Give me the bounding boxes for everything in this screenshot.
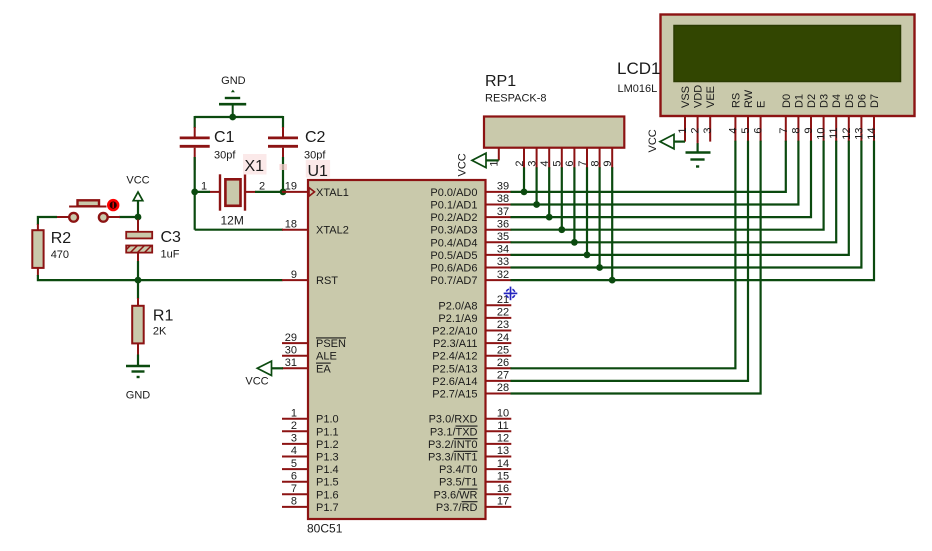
- svg-text:17: 17: [497, 496, 509, 508]
- U1 pin 6 (P1.5) stub + number: [282, 470, 339, 488]
- U1 pin 33 (P0.6/AD6) stub + number: [430, 256, 511, 274]
- U1 pin 5 (P1.4) stub + number: [282, 458, 339, 476]
- wire: net P0.2 from U1 to LCD D2: [511, 141, 812, 218]
- svg-text:10: 10: [816, 128, 828, 140]
- power VCC (EA pin): [245, 361, 271, 387]
- svg-text:13: 13: [853, 128, 865, 140]
- svg-text:12: 12: [841, 128, 853, 140]
- svg-text:D3: D3: [819, 94, 831, 108]
- U1 pin 10 (P3.0/RXD) stub + number: [429, 407, 512, 425]
- wire: RP1 pin 8 down to P0.6 net: [598, 167, 600, 267]
- svg-text:3: 3: [702, 128, 714, 134]
- svg-text:P1.2: P1.2: [316, 439, 339, 451]
- wire: net P2.5 from U1 to LCD RS: [511, 141, 736, 369]
- U1 pin 16 (P3.6/WR) stub + number: [433, 483, 511, 501]
- svg-text:2: 2: [514, 161, 526, 167]
- RP1 pin 5 stub + number: [552, 148, 564, 169]
- svg-text:12M: 12M: [221, 213, 244, 227]
- U1 pin 32 (P0.7/AD7) stub + number: [430, 269, 511, 287]
- capacitor C3 1uF (electrolytic): [126, 220, 181, 263]
- LCD1 pin 2 (VDD) stub + labels: [690, 85, 705, 142]
- LCD1 pin 14 (D7) stub + labels: [866, 94, 881, 142]
- U1 pin 11 (P3.1/TXD) stub + number: [430, 420, 511, 438]
- svg-text:ALE: ALE: [316, 351, 337, 363]
- svg-text:RP1: RP1: [485, 73, 516, 90]
- U1 pin 22 (P2.1/A9) stub + number: [438, 307, 511, 325]
- junction dot: RP1 pin 5 on P0.3 net: [558, 226, 565, 233]
- svg-text:P0.0/AD0: P0.0/AD0: [430, 187, 477, 199]
- U1 pin 9 (RST) stub + number: [282, 269, 338, 287]
- svg-text:37: 37: [497, 206, 509, 218]
- red actuate indicator on button: [108, 200, 118, 210]
- junction dot: RP1 pin 7 on P0.5 net: [584, 252, 591, 259]
- LCD1 pin 9 (D2) stub + labels: [803, 94, 818, 142]
- wire: C3 bottom to RST net: [137, 261, 139, 280]
- svg-text:27: 27: [497, 370, 509, 382]
- svg-text:5: 5: [552, 161, 564, 167]
- svg-text:X1: X1: [245, 158, 265, 175]
- svg-text:35: 35: [497, 231, 509, 243]
- LCD1 pin 8 (D1) stub + labels: [790, 94, 805, 142]
- svg-text:P3.7/RD: P3.7/RD: [436, 502, 478, 514]
- svg-text:VCC: VCC: [647, 129, 659, 152]
- U1 pin 19 (XTAL1) stub + number: [282, 181, 349, 199]
- LCD1 pin 12 (D5) stub + labels: [841, 94, 856, 142]
- svg-text:P3.4/T0: P3.4/T0: [439, 464, 478, 476]
- capacitor C1 30pf: [180, 127, 237, 170]
- junction dot: crystal pin1 tap: [191, 189, 198, 196]
- svg-text:P2.0/A8: P2.0/A8: [438, 300, 477, 312]
- svg-text:VCC: VCC: [126, 175, 149, 187]
- svg-text:P2.5/A13: P2.5/A13: [432, 363, 477, 375]
- wire: R1 bottom to ground: [137, 355, 139, 367]
- wire: RST net down to R1: [137, 280, 139, 299]
- svg-text:P2.7/A15: P2.7/A15: [432, 389, 477, 401]
- U1 pin 38 (P0.1/AD1) stub + number: [430, 193, 511, 211]
- X1 ref label (pink highlight): [243, 154, 267, 175]
- U1 pin 25 (P2.4/A12) stub + number: [432, 344, 511, 362]
- wire: RP1 pin 2 down to P0.0 net: [523, 167, 525, 192]
- svg-text:VEE: VEE: [705, 86, 717, 108]
- wire: button left terminal to R2 top: [38, 217, 57, 225]
- svg-text:P0.3/AD3: P0.3/AD3: [430, 225, 477, 237]
- svg-text:10: 10: [497, 407, 509, 419]
- svg-text:R1: R1: [153, 307, 174, 324]
- LCD1 pin 10 (D3) stub + labels: [816, 94, 831, 142]
- junction dot: RP1 pin 4 on P0.2 net: [546, 214, 553, 221]
- LCD1 pin 3 (VEE) stub + labels: [702, 86, 717, 142]
- U1 pin 1 (P1.0) stub + number: [282, 407, 339, 425]
- U1 pin 24 (P2.3/A11) stub + number: [433, 332, 511, 350]
- svg-text:8: 8: [589, 161, 601, 167]
- svg-text:EA: EA: [316, 363, 331, 375]
- svg-text:30pf: 30pf: [304, 150, 326, 162]
- wire: crystal pin1 to left rail: [194, 191, 210, 193]
- svg-text:6: 6: [564, 161, 576, 167]
- svg-text:R2: R2: [51, 230, 72, 247]
- svg-text:3: 3: [291, 433, 297, 445]
- wire: RP1 pin 4 down to P0.2 net: [548, 167, 550, 217]
- svg-text:D1: D1: [793, 94, 805, 108]
- svg-text:2: 2: [259, 181, 265, 193]
- svg-text:VCC: VCC: [457, 153, 469, 176]
- svg-text:12: 12: [497, 433, 509, 445]
- svg-text:30: 30: [285, 344, 297, 356]
- svg-text:11: 11: [497, 420, 508, 432]
- RP1 pin 7 stub + number: [577, 148, 589, 169]
- svg-text:4: 4: [539, 161, 551, 167]
- svg-text:D5: D5: [844, 94, 856, 108]
- svg-text:6: 6: [291, 470, 297, 482]
- svg-text:P0.5/AD5: P0.5/AD5: [430, 250, 477, 262]
- svg-text:28: 28: [497, 382, 509, 394]
- wire: RP1 pin1 to VCC arrow: [485, 159, 499, 161]
- U1 ref label (pink highlight): [306, 160, 330, 178]
- svg-text:P1.4: P1.4: [316, 464, 339, 476]
- svg-text:P0.4/AD4: P0.4/AD4: [430, 237, 477, 249]
- U1 pin 12 (P3.2/INT0) stub + number: [428, 433, 511, 451]
- svg-text:9: 9: [803, 128, 815, 134]
- resistor pack RP1 RESPACK-8 body: [484, 117, 624, 148]
- U1 pin 21 (P2.0/A8) stub + number: [438, 294, 511, 312]
- RP1 pin 9 stub + number: [602, 148, 614, 169]
- svg-text:RW: RW: [743, 89, 755, 108]
- svg-text:RESPACK-8: RESPACK-8: [485, 93, 547, 105]
- svg-text:D2: D2: [806, 94, 818, 108]
- wire: RP1 pin 5 down to P0.3 net: [561, 167, 563, 229]
- svg-text:14: 14: [866, 128, 878, 140]
- LCD1 pin 13 (D6) stub + labels: [853, 94, 868, 142]
- push button (switch): [56, 200, 120, 221]
- pink selection smudge on C2 wire: [280, 164, 288, 170]
- wire: top rail down to C1: [194, 116, 196, 128]
- wire: RP1 pin 9 down to P0.7 net: [611, 167, 613, 280]
- svg-text:7: 7: [291, 483, 297, 495]
- svg-text:7: 7: [778, 128, 790, 134]
- ground (top, above C1/C2): [219, 75, 246, 117]
- U1 pin 39 (P0.0/AD0) stub + number: [430, 181, 511, 199]
- svg-text:P0.7/AD7: P0.7/AD7: [430, 275, 477, 287]
- wire: RP1 pin 3 down to P0.1 net: [535, 167, 537, 204]
- svg-text:1: 1: [201, 181, 207, 193]
- junction dot: VCC / button / C3 node: [135, 214, 142, 221]
- wire: RST net to U1 RST pin: [138, 279, 283, 281]
- LCD1 screen: [674, 26, 901, 82]
- svg-text:2K: 2K: [153, 326, 167, 338]
- RP1 pin 1 stub: [498, 148, 500, 161]
- junction dot: XTAL1 node: [280, 189, 287, 196]
- U1 pin 26 (P2.5/A13) stub + number: [432, 357, 511, 375]
- svg-text:P0.1/AD1: P0.1/AD1: [430, 200, 477, 212]
- U1 pin 34 (P0.5/AD5) stub + number: [430, 244, 511, 262]
- svg-text:9: 9: [602, 161, 614, 167]
- wire: net P0.5 from U1 to LCD D5: [511, 141, 849, 255]
- svg-text:PSEN: PSEN: [316, 338, 346, 350]
- svg-text:29: 29: [285, 332, 297, 344]
- LCD1 pin 5 (RW) stub + labels: [740, 89, 755, 141]
- svg-text:22: 22: [497, 307, 509, 319]
- svg-text:LM016L: LM016L: [618, 83, 658, 95]
- svg-text:P2.6/A14: P2.6/A14: [432, 376, 477, 388]
- wire: net P0.0 from U1 to LCD D0: [511, 141, 786, 192]
- power VCC (LCD pin1): [647, 129, 674, 152]
- svg-text:RS: RS: [730, 93, 742, 108]
- svg-text:GND: GND: [126, 390, 151, 402]
- wire: net P0.4 from U1 to LCD D4: [511, 141, 837, 243]
- svg-text:5: 5: [740, 128, 752, 134]
- svg-text:P1.6: P1.6: [316, 489, 339, 501]
- svg-text:1: 1: [677, 128, 689, 134]
- wire: R2 bottom to RST net corner: [38, 275, 139, 280]
- junction dot: RP1 pin 3 on P0.1 net: [533, 201, 540, 208]
- wire: button right terminal to VCC node: [119, 216, 138, 218]
- svg-text:D0: D0: [781, 94, 793, 108]
- U1 pin 2 (P1.1) stub + number: [282, 420, 339, 438]
- U1 pin 17 (P3.7/RD) stub + number: [436, 496, 511, 514]
- svg-text:34: 34: [497, 244, 509, 256]
- capacitor C2 30pf: [268, 127, 326, 168]
- U1 pin 29 (PSEN) stub + number: [282, 332, 346, 350]
- svg-text:C2: C2: [305, 129, 326, 146]
- svg-text:9: 9: [291, 269, 297, 281]
- svg-text:7: 7: [577, 161, 589, 167]
- svg-text:5: 5: [291, 458, 297, 470]
- svg-text:1: 1: [291, 407, 297, 419]
- wire: net P2.7 from U1 to LCD E: [511, 141, 761, 394]
- U1 XTAL1 clock marker: [309, 188, 315, 197]
- svg-text:39: 39: [497, 181, 509, 193]
- wire: EA pin to VCC arrow: [271, 367, 283, 369]
- svg-text:RST: RST: [316, 275, 338, 287]
- svg-text:D4: D4: [831, 94, 843, 108]
- svg-text:P3.5/T1: P3.5/T1: [439, 477, 478, 489]
- svg-text:P1.1: P1.1: [316, 426, 339, 438]
- wire: RP1 pin 7 down to P0.5 net: [586, 167, 588, 255]
- RP1 pin 3 stub + number: [526, 148, 538, 169]
- svg-text:470: 470: [51, 249, 69, 261]
- U1 pin 15 (P3.5/T1) stub + number: [439, 470, 511, 488]
- svg-text:P3.0/RXD: P3.0/RXD: [429, 414, 478, 426]
- svg-text:23: 23: [497, 319, 509, 331]
- junction dot: RP1 pin 2 on P0.0 net: [521, 189, 528, 196]
- svg-text:80C51: 80C51: [307, 522, 343, 536]
- LCD1 pin 11 (D4) stub + labels: [828, 94, 843, 142]
- power VCC (RP1 pin1): [457, 153, 487, 176]
- wire: LCD pin1 to VCC arrow: [673, 141, 685, 143]
- wire: LCD pin2 down to ground: [697, 141, 699, 144]
- junction dot: RP1 pin 8 on P0.6 net: [596, 264, 603, 271]
- wire: C1 top to C2 top (horizontal, y=117): [195, 116, 283, 118]
- svg-text:P2.3/A11: P2.3/A11: [433, 338, 477, 350]
- svg-text:VSS: VSS: [680, 86, 692, 108]
- svg-text:P1.7: P1.7: [316, 502, 339, 514]
- svg-text:1uF: 1uF: [161, 249, 180, 261]
- resistor R1 2K: [132, 298, 173, 356]
- svg-text:26: 26: [497, 357, 509, 369]
- svg-text:LCD1: LCD1: [617, 59, 660, 78]
- wire: C2 bottom down to XTAL1 row: [282, 157, 284, 192]
- svg-text:11: 11: [828, 128, 840, 139]
- svg-text:8: 8: [790, 128, 802, 134]
- RP1 pin 6 stub + number: [564, 148, 576, 169]
- svg-text:3: 3: [526, 161, 538, 167]
- svg-text:18: 18: [285, 218, 297, 230]
- svg-text:P3.1/TXD: P3.1/TXD: [430, 426, 478, 438]
- svg-text:P2.2/A10: P2.2/A10: [432, 326, 477, 338]
- svg-text:P1.5: P1.5: [316, 477, 339, 489]
- svg-text:P1.0: P1.0: [316, 414, 339, 426]
- svg-text:U1: U1: [308, 163, 329, 180]
- svg-text:E: E: [756, 101, 768, 108]
- svg-text:XTAL2: XTAL2: [316, 225, 349, 237]
- svg-text:30pf: 30pf: [214, 150, 236, 162]
- wire: crystal pin2 to XTAL1 node: [255, 191, 284, 193]
- U1 pin 36 (P0.3/AD3) stub + number: [430, 218, 511, 236]
- ground (below R1): [126, 366, 151, 402]
- svg-text:P3.6/WR: P3.6/WR: [433, 489, 477, 501]
- svg-text:P3.2/INT0: P3.2/INT0: [428, 439, 478, 451]
- svg-text:6: 6: [753, 128, 765, 134]
- wire: left rail to XTAL2 pin: [195, 229, 283, 231]
- U1 pin 3 (P1.2) stub + number: [282, 433, 339, 451]
- svg-text:38: 38: [497, 193, 509, 205]
- svg-text:33: 33: [497, 256, 509, 268]
- LCD1 LM016L body: [661, 15, 915, 117]
- crystal X1 12M: [209, 174, 256, 227]
- RP1 pin 4 stub + number: [539, 148, 551, 169]
- svg-text:2: 2: [291, 420, 297, 432]
- svg-text:8: 8: [291, 496, 297, 508]
- svg-text:P0.6/AD6: P0.6/AD6: [430, 263, 477, 275]
- U1 pin 27 (P2.6/A14) stub + number: [432, 370, 511, 388]
- svg-text:P3.3/INT1: P3.3/INT1: [428, 452, 478, 464]
- LCD1 pin 6 (E) stub + labels: [753, 101, 768, 142]
- svg-text:VDD: VDD: [693, 85, 705, 108]
- U1 pin 8 (P1.7) stub + number: [282, 496, 339, 514]
- svg-text:2: 2: [690, 128, 702, 134]
- U1 pin 30 (ALE) stub + number: [282, 344, 337, 362]
- svg-text:31: 31: [285, 357, 297, 369]
- svg-text:GND: GND: [221, 75, 246, 87]
- junction dot: RST net (R2/C3/R1): [135, 277, 142, 284]
- U1 pin 28 (P2.7/A15) stub + number: [432, 382, 511, 400]
- RP1 pin 2 stub + number: [514, 148, 526, 169]
- wire: net P0.3 from U1 to LCD D3: [511, 141, 824, 230]
- svg-text:4: 4: [291, 445, 297, 457]
- U1 pin 23 (P2.2/A10) stub + number: [432, 319, 511, 337]
- op: IC U1 80C51 body: [308, 180, 486, 519]
- U1 pin 18 (XTAL2) stub + number: [282, 218, 349, 236]
- svg-text:24: 24: [497, 332, 509, 344]
- wire: net P0.1 from U1 to LCD D1: [511, 141, 799, 205]
- svg-text:4: 4: [727, 128, 739, 134]
- ground (LCD pin2): [686, 153, 711, 167]
- svg-text:P1.3: P1.3: [316, 452, 339, 464]
- svg-text:32: 32: [497, 269, 509, 281]
- svg-text:36: 36: [497, 218, 509, 230]
- wire: C1 bottom down to XTAL2 row (x=194.7): [194, 157, 196, 230]
- svg-text:XTAL1: XTAL1: [316, 187, 349, 199]
- svg-text:15: 15: [497, 470, 509, 482]
- LCD1 pin 1 (VSS) stub + labels: [677, 86, 692, 142]
- junction dot: RP1 pin 6 on P0.4 net: [571, 239, 578, 246]
- resistor R2 470: [32, 224, 71, 276]
- U1 pin 13 (P3.3/INT1) stub + number: [428, 445, 511, 463]
- svg-text:19: 19: [285, 181, 297, 193]
- U1 pin 31 (EA) stub + number: [282, 357, 331, 375]
- svg-text:P2.1/A9: P2.1/A9: [438, 313, 477, 325]
- LCD1 pin 7 (D0) stub + labels: [778, 94, 793, 142]
- svg-text:16: 16: [497, 483, 509, 495]
- junction dot: GND tap on C1-C2 top wire: [229, 114, 236, 121]
- wire: net P2.6 from U1 to LCD RW: [511, 141, 749, 381]
- wire: net P0.6 from U1 to LCD D6: [511, 141, 862, 268]
- svg-text:C1: C1: [214, 129, 235, 146]
- svg-text:VCC: VCC: [245, 376, 268, 388]
- svg-text:P2.4/A12: P2.4/A12: [432, 351, 477, 363]
- blue origin crosshair marker: [504, 287, 518, 301]
- svg-text:D6: D6: [856, 94, 868, 108]
- wire: top rail down to C2: [282, 116, 284, 128]
- svg-text:25: 25: [497, 344, 509, 356]
- U1 pin 35 (P0.4/AD4) stub + number: [430, 231, 511, 249]
- junction dot: RP1 pin 9 on P0.7 net: [609, 277, 616, 284]
- power VCC (top-left): [126, 175, 149, 218]
- RP1 pin 8 stub + number: [589, 148, 601, 169]
- svg-text:14: 14: [497, 458, 509, 470]
- svg-text:C3: C3: [161, 229, 182, 246]
- wire: net P0.7 from U1 to LCD D7: [511, 141, 875, 281]
- svg-text:D7: D7: [869, 94, 881, 108]
- svg-text:13: 13: [497, 445, 509, 457]
- LCD1 pin 4 (RS) stub + labels: [727, 93, 742, 142]
- U1 pin 14 (P3.4/T0) stub + number: [439, 458, 511, 476]
- wire: RP1 pin 6 down to P0.4 net: [573, 167, 575, 242]
- U1 pin 4 (P1.3) stub + number: [282, 445, 339, 463]
- U1 pin 7 (P1.6) stub + number: [282, 483, 339, 501]
- svg-text:P0.2/AD2: P0.2/AD2: [430, 212, 477, 224]
- U1 pin 37 (P0.2/AD2) stub + number: [430, 206, 511, 224]
